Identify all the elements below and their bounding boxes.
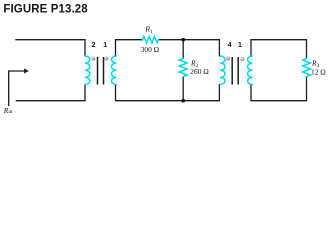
svg-text:2: 2 [92,42,96,49]
svg-text:300 Ω: 300 Ω [141,45,160,54]
svg-text:260 Ω: 260 Ω [190,67,209,76]
svg-text:12 Ω: 12 Ω [311,67,326,76]
svg-text:FIGURE P13.28: FIGURE P13.28 [3,4,88,16]
svg-text:4: 4 [228,42,232,49]
svg-text:1: 1 [238,42,242,49]
svg-text:1: 1 [103,42,107,49]
